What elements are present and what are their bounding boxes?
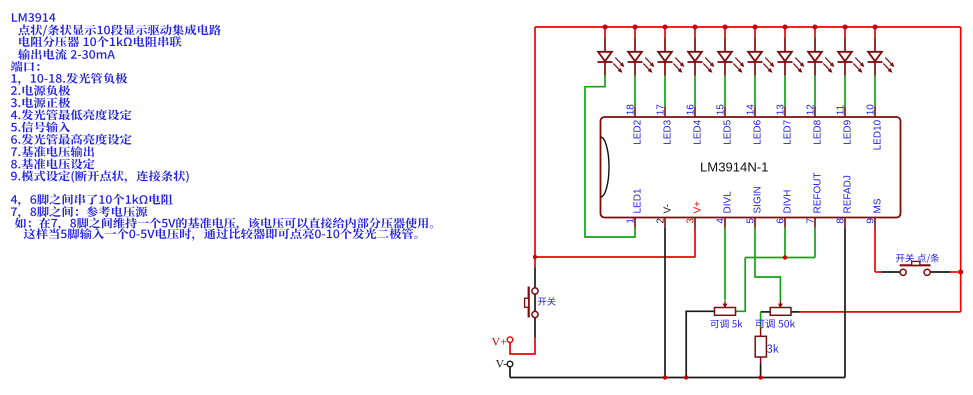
svg-text:11: 11 xyxy=(836,104,847,115)
svg-text:LED1: LED1 xyxy=(633,188,644,213)
svg-text:LM3914N-1: LM3914N-1 xyxy=(700,160,768,175)
svg-text:8: 8 xyxy=(836,218,847,224)
svg-text:17: 17 xyxy=(656,104,667,116)
svg-text:LED10: LED10 xyxy=(873,119,884,150)
svg-text:15: 15 xyxy=(716,104,727,116)
svg-text:LED4: LED4 xyxy=(693,119,704,144)
svg-text:16: 16 xyxy=(686,104,697,116)
svg-text:DIVL: DIVL xyxy=(723,191,734,214)
svg-text:10: 10 xyxy=(866,104,877,116)
svg-text:REFADJ: REFADJ xyxy=(843,175,854,213)
svg-text:MS: MS xyxy=(873,198,884,213)
svg-text:LED7: LED7 xyxy=(783,119,794,144)
svg-text:9: 9 xyxy=(866,218,877,224)
svg-text:LED8: LED8 xyxy=(813,119,824,144)
svg-text:LED9: LED9 xyxy=(843,119,854,144)
svg-text:SIGIN: SIGIN xyxy=(753,186,764,213)
svg-text:LED2: LED2 xyxy=(633,119,644,144)
svg-text:2: 2 xyxy=(656,218,667,224)
svg-text:13: 13 xyxy=(776,104,787,116)
svg-text:12: 12 xyxy=(806,104,817,116)
svg-text:18: 18 xyxy=(626,104,637,116)
svg-text:6: 6 xyxy=(776,218,787,224)
svg-text:3: 3 xyxy=(686,218,697,224)
svg-text:14: 14 xyxy=(746,104,757,116)
svg-text:REFOUT: REFOUT xyxy=(813,172,824,213)
svg-text:LED5: LED5 xyxy=(723,119,734,144)
svg-text:V-: V- xyxy=(663,204,674,213)
svg-text:7: 7 xyxy=(806,218,817,224)
svg-text:V-: V- xyxy=(496,356,508,370)
svg-text:DIVH: DIVH xyxy=(783,190,794,214)
svg-text:5: 5 xyxy=(746,218,757,224)
svg-text:LED6: LED6 xyxy=(753,119,764,144)
svg-text:LED3: LED3 xyxy=(663,119,674,144)
svg-text:V+: V+ xyxy=(492,334,508,348)
svg-text:V+: V+ xyxy=(693,201,704,214)
svg-text:1: 1 xyxy=(626,218,637,224)
svg-text:4: 4 xyxy=(716,218,727,224)
